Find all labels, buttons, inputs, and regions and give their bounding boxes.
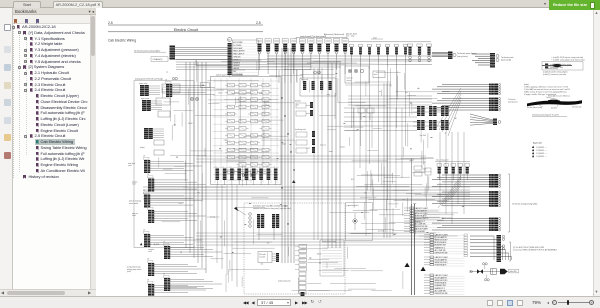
svg-text:horn: horn xyxy=(413,202,416,205)
svg-text:9: 9 xyxy=(314,72,315,74)
svg-text:(C/D) be: (C/D) be xyxy=(551,108,557,110)
svg-text:E-21: E-21 xyxy=(307,148,310,150)
fuse connector F3 xyxy=(367,45,371,47)
stepped bundle connector bar xyxy=(497,235,502,262)
svg-text:(swing frame side): (swing frame side) xyxy=(550,67,563,69)
svg-text:CN-12: CN-12 xyxy=(218,92,223,94)
junction box small xyxy=(201,83,210,88)
svg-text:(roof): (roof) xyxy=(127,271,131,273)
component cluster xyxy=(144,128,148,139)
component cluster wiper motor xyxy=(142,100,146,111)
unit box cigarette lighter xyxy=(346,203,373,241)
legend connector sample box xyxy=(542,62,583,71)
svg-text:(flasher): (flasher) xyxy=(295,100,301,102)
svg-text:CN: CN xyxy=(143,156,145,158)
svg-text:HORN SW: HORN SW xyxy=(233,57,241,59)
bracket row2 xyxy=(349,41,431,43)
svg-text:acc: acc xyxy=(379,91,382,93)
unit box swing panel xyxy=(134,81,194,248)
harness connector stack xyxy=(442,218,489,220)
wires dropping from switch row to bus xyxy=(259,56,261,70)
svg-text:(at) the (blank) wiring: (at) the (blank) wiring xyxy=(527,106,542,109)
svg-text:lamp sw: lamp sw xyxy=(320,145,326,147)
roof unit cluster xyxy=(296,132,307,137)
svg-text:WIPER MOTOR F: WIPER MOTOR F xyxy=(435,280,448,282)
wire mesh right-mid extra xyxy=(370,208,401,210)
harness connector stack xyxy=(442,98,489,100)
bus branch verticals right-center xyxy=(353,108,355,208)
svg-text:CN: CN xyxy=(143,230,145,232)
svg-text:2-5: 2-5 xyxy=(108,21,113,25)
svg-text:FLASHER UNIT: FLASHER UNIT xyxy=(435,244,447,247)
switch connector S10 xyxy=(333,39,339,44)
svg-text:CN-12: CN-12 xyxy=(178,203,183,205)
wire bus center-left xyxy=(185,62,187,248)
switch connector S8 xyxy=(316,39,322,44)
crossing junction circles xyxy=(190,97,193,100)
switch connector S9 xyxy=(325,39,331,44)
fuse connector F4 xyxy=(376,45,380,47)
small unit box right of relay box xyxy=(373,71,385,78)
svg-text:relay: relay xyxy=(327,93,331,96)
note full jib assembly xyxy=(510,242,512,261)
relay grid small relays xyxy=(228,84,235,87)
fuse connector F6 xyxy=(394,45,398,47)
svg-text:GN-05: GN-05 xyxy=(188,123,193,125)
cab device connector wiper sw xyxy=(148,210,151,223)
harness to electric parts lower top xyxy=(432,52,448,54)
svg-text:4) apply a handle. Pilot type*: 4) apply a handle. Pilot type* is mainta… xyxy=(524,93,557,96)
svg-text:(lamp unit): (lamp unit) xyxy=(301,78,309,81)
horizontal bus group upper-mid xyxy=(196,155,426,157)
cab device connector xyxy=(144,195,147,208)
triangle marker A xyxy=(405,263,410,267)
legend cable drawing small xyxy=(542,65,572,67)
fuse connector F7 xyxy=(403,45,407,47)
scattered wire ticks xyxy=(394,234,396,236)
svg-text:heater relay: heater relay xyxy=(139,82,148,85)
svg-text:WIPER MOTOR F: WIPER MOTOR F xyxy=(435,240,448,242)
lamp circles center xyxy=(243,173,247,177)
svg-text:12V: 12V xyxy=(197,193,200,195)
svg-text:(Front electric wiring): (Front electric wiring) xyxy=(322,240,337,243)
terminal list D xyxy=(430,274,434,276)
horizontal bus group mid xyxy=(143,186,470,188)
svg-text:(cab)(X): XX(S) electric wirin: (cab)(X): XX(S) electric wiring xyxy=(550,63,571,66)
svg-text:DEFROSTER SW: DEFROSTER SW xyxy=(435,293,448,295)
svg-text:CN: CN xyxy=(147,206,149,208)
svg-text:(switch panel (The front panel: (switch panel (The front panel)) xyxy=(300,35,327,38)
svg-text:HORN RELAY B: HORN RELAY B xyxy=(435,241,447,244)
svg-text:CN: CN xyxy=(143,190,145,192)
svg-text:wiper sw: wiper sw xyxy=(132,212,139,215)
bracket to electric wiring swing table xyxy=(509,174,511,232)
svg-text:(electric heating): (electric heating) xyxy=(129,199,141,202)
svg-text:fuse 10A: fuse 10A xyxy=(378,230,384,233)
fuse connector F5 xyxy=(385,45,389,47)
svg-text:To electric wiring (swing tabl: To electric wiring (swing table) xyxy=(512,202,538,205)
svg-text:To electric parts (lower): To electric parts (lower) xyxy=(457,52,477,55)
label CN-A05(X) xyxy=(151,57,168,62)
main harness cable drawing xyxy=(527,100,582,106)
cab device connector xyxy=(148,284,151,297)
svg-text:CIG LIGHTER: CIG LIGHTER xyxy=(415,231,426,233)
harness connector stack xyxy=(442,174,489,176)
junction circled label xyxy=(228,38,232,42)
chain terminal circles upper xyxy=(482,263,484,265)
svg-text:HEAD LAMP LH: HEAD LAMP LH xyxy=(233,53,244,56)
verticals from matrix to lists xyxy=(439,132,441,204)
svg-text:(swing panel (The left overhea: (swing panel (The left overhead)) xyxy=(135,77,163,80)
svg-text:(note): (note) xyxy=(524,83,529,86)
arrow marker into alarm box xyxy=(234,207,239,211)
svg-text:CN: CN xyxy=(165,80,167,82)
bracket switch panel front panel xyxy=(296,37,347,39)
svg-text:A/C COMP SW: A/C COMP SW xyxy=(415,222,426,225)
svg-text:(automatic alarm unit, AML uni: (automatic alarm unit, AML unit) (left d… xyxy=(253,204,288,207)
fuse row bracket xyxy=(435,161,470,163)
wire mesh upper band xyxy=(217,89,259,91)
switch connector S11 xyxy=(342,39,348,44)
connector CN-A05 block xyxy=(170,46,176,60)
fuse connector F2 xyxy=(358,45,362,47)
alarm unit terminal circles xyxy=(249,213,252,216)
terminal list B xyxy=(430,234,434,236)
svg-text:(room lp): (room lp) xyxy=(347,77,354,80)
svg-text:ACC POWER: ACC POWER xyxy=(233,41,243,44)
svg-text:motor: motor xyxy=(259,92,263,95)
svg-text:(door): (door) xyxy=(341,146,346,149)
svg-text:〈CQ6056〉—: 〈CQ6056〉— xyxy=(535,149,547,152)
harness connector stack xyxy=(442,191,489,193)
small relay boxes left of matrix xyxy=(358,108,365,113)
junction wire table xyxy=(232,40,258,76)
svg-text:unit: unit xyxy=(261,263,264,266)
svg-text:(relay): (relay) xyxy=(140,147,145,149)
cab device connector speaker xyxy=(148,179,151,192)
harness bundle top right large xyxy=(472,53,490,55)
radio lower column xyxy=(299,272,306,276)
svg-text:GN-05: GN-05 xyxy=(317,254,322,256)
relay connector K1 xyxy=(407,44,412,46)
svg-text:CAB SPOT LIGHT: CAB SPOT LIGHT xyxy=(435,233,448,236)
svg-text:(roof lamp unit): (roof lamp unit) xyxy=(295,128,306,131)
svg-text:To electric parts: To electric parts xyxy=(501,56,514,59)
svg-text:35: 35 xyxy=(228,40,230,42)
unit box switch panel relay grid xyxy=(211,77,282,185)
svg-text:(blind WL): (blind WL) xyxy=(510,271,518,273)
svg-text:horn: horn xyxy=(296,104,299,107)
svg-text:(lower) (cab): (lower) (cab) xyxy=(501,60,511,62)
terminal list A xyxy=(410,207,414,209)
blind connector chain wire xyxy=(470,271,508,273)
riser wires below relay grid xyxy=(216,185,218,263)
svg-text:speaker: speaker xyxy=(132,181,138,184)
svg-text:10: 10 xyxy=(318,72,320,74)
switch connector S3 xyxy=(274,39,280,44)
svg-text:computer: computer xyxy=(148,248,155,251)
relay grid internal wires xyxy=(213,80,279,82)
cab device connector xyxy=(144,234,147,247)
switch connector S5 xyxy=(291,39,297,44)
svg-text:CN: CN xyxy=(163,274,165,276)
terminal list right column xyxy=(464,234,467,236)
svg-text:〈CQ6056〉—: 〈CQ6056〉— xyxy=(535,155,547,158)
wire bus center xyxy=(281,48,283,263)
long feeder wires from junction to right xyxy=(267,55,432,57)
svg-text:fuse 10A: fuse 10A xyxy=(420,134,426,137)
svg-text:ROOM LAMP RY: ROOM LAMP RY xyxy=(435,236,448,239)
label CQ6056 marker xyxy=(140,243,142,245)
svg-text:CN-12: CN-12 xyxy=(224,140,229,142)
svg-text:(switch panel (The left overhe: (switch panel (The left overhead)) xyxy=(216,74,243,77)
triangle marker small mid xyxy=(292,180,296,183)
svg-text:Applicable: Applicable xyxy=(533,141,543,144)
switch connector S6 xyxy=(299,39,305,44)
component cluster heater relay xyxy=(140,85,144,96)
svg-text:〈CQ6056〉—: 〈CQ6056〉— xyxy=(535,146,547,149)
svg-text:(connection) VEHICLE WIRED FOR: (connection) VEHICLE WIRED FOR FULL A/P … xyxy=(513,249,558,252)
wire bus far right vertical xyxy=(411,204,413,295)
svg-text:GN-05: GN-05 xyxy=(265,105,270,107)
svg-text:relay bx: relay bx xyxy=(347,80,352,82)
svg-text:acc: acc xyxy=(166,71,169,73)
svg-text:〈CQ6056〉 (A) (DB): 〈CQ6056〉 (A) (DB) xyxy=(143,243,160,246)
alarm unit connector pair 1 xyxy=(257,214,260,228)
switch connector S1 xyxy=(256,39,262,44)
flasher unit cluster xyxy=(296,103,306,108)
svg-text:② (cab)(Y): wiring adapter (ca: ② (cab)(Y): wiring adapter (cab internal… xyxy=(551,58,585,61)
cab device connector xyxy=(148,263,151,276)
chain terminal circles lower xyxy=(484,279,486,281)
svg-text:ROOM LAMP RY: ROOM LAMP RY xyxy=(435,276,448,279)
radio component column xyxy=(299,245,307,249)
svg-text:CN: CN xyxy=(147,259,149,261)
unit box automatic alarm xyxy=(244,203,345,294)
svg-text:parts (lower): parts (lower) xyxy=(508,101,518,104)
svg-text:CAB SPOT LIGHT: CAB SPOT LIGHT xyxy=(435,256,448,259)
wire bus center junction dots xyxy=(281,97,282,98)
front wiring list block xyxy=(320,240,344,276)
svg-text:FLASHER UNIT: FLASHER UNIT xyxy=(415,217,427,220)
svg-text:CN: CN xyxy=(147,280,149,282)
chain inline connector xyxy=(491,269,497,274)
title rule top xyxy=(108,24,263,26)
horizontal bus upper right xyxy=(348,95,432,97)
grid box bottom connector row xyxy=(216,169,220,181)
terminal list C xyxy=(430,256,434,258)
wire down from CN-A05 xyxy=(195,60,197,66)
small component boxes left of fuse row xyxy=(414,166,422,170)
svg-text:timer: timer xyxy=(374,73,378,76)
swing panel small boxes lower xyxy=(154,140,164,145)
relay connector K2 xyxy=(417,44,422,46)
svg-text:DEFROSTER SW: DEFROSTER SW xyxy=(435,253,448,255)
switch connector S7 xyxy=(308,39,314,44)
svg-text:ILL POWER: ILL POWER xyxy=(233,45,242,47)
wire bus right-center xyxy=(327,63,329,248)
junction marks mid xyxy=(314,71,317,74)
svg-text:(CD-radio: (CD-radio xyxy=(259,253,266,256)
svg-text:CAB SPOT LIGHT: CAB SPOT LIGHT xyxy=(415,207,428,210)
svg-text:A/C COMP SW: A/C COMP SW xyxy=(435,289,446,292)
relay box with lamp circles xyxy=(345,66,369,83)
svg-text:WORK LAMP: WORK LAMP xyxy=(233,47,242,50)
svg-text:HEATER RY 2: HEATER RY 2 xyxy=(415,220,425,223)
connector matrix block xyxy=(417,106,420,116)
cab device connector computer xyxy=(164,246,167,259)
svg-text:2-5: 2-5 xyxy=(256,21,261,25)
component box below switch row xyxy=(300,78,336,96)
junction connector column CN-B01 xyxy=(228,43,232,75)
svg-text:A/C COMP SW: A/C COMP SW xyxy=(435,249,446,252)
bus x290 group xyxy=(383,83,385,238)
svg-text:(cigarette lighter): (cigarette lighter) xyxy=(347,204,359,207)
chain plug arrow xyxy=(500,269,508,274)
svg-text:CN: CN xyxy=(147,174,149,176)
svg-text:(swing): (swing) xyxy=(210,217,215,219)
svg-text:A(electrical) B(electrical): A(electrical) B(electrical) xyxy=(324,33,344,36)
svg-text:RADIO B POWER: RADIO B POWER xyxy=(415,228,429,231)
fuse row connectors xyxy=(437,164,442,167)
diagonal harness wires right xyxy=(436,88,461,128)
stepped harness bundle lower right xyxy=(470,235,494,237)
svg-text:fuse - relay panel: fuse - relay panel xyxy=(436,160,449,162)
title rule bottom xyxy=(108,31,263,33)
svg-text:CN-A05(X): CN-A05(X) xyxy=(153,58,163,61)
fuse connector F1 xyxy=(349,45,353,47)
svg-text:(early yellow lamp): (early yellow lamp) xyxy=(127,266,141,268)
svg-text:(cable)(Y) connector (cab side: (cable)(Y) connector (cab side) xyxy=(543,73,567,76)
horizontal bus lower xyxy=(196,232,436,234)
label blind WL xyxy=(509,269,519,273)
switch connector S4 xyxy=(282,39,288,44)
svg-text:wiper motor: wiper motor xyxy=(141,97,150,100)
wire mesh bottom xyxy=(301,248,329,250)
cab device connector xyxy=(164,278,167,291)
svg-text:wiper: wiper xyxy=(283,143,287,146)
alarm unit connector pair 2 xyxy=(272,214,275,228)
svg-text:Terminal side: Terminal side xyxy=(572,106,582,108)
svg-text:DEFROSTER SW: DEFROSTER SW xyxy=(415,226,428,228)
svg-text:FLASHER UNIT: FLASHER UNIT xyxy=(435,284,447,287)
svg-text:〈CQ6056〉—: 〈CQ6056〉— xyxy=(535,152,547,155)
fan bundle to single connector xyxy=(470,114,493,120)
svg-text:CN: CN xyxy=(163,242,165,244)
svg-text:(swing frame): (swing frame) xyxy=(457,56,468,58)
svg-text:HEATER RY 2: HEATER RY 2 xyxy=(435,287,445,290)
riser wires center tall xyxy=(313,68,315,240)
switch connector S2 xyxy=(265,39,271,44)
vertical drops from fuse row xyxy=(351,63,353,128)
feeder wires upper group xyxy=(176,59,311,61)
svg-text:DEF: DEF xyxy=(233,71,236,73)
wire grid left of lists xyxy=(352,160,388,162)
wire mesh center-right xyxy=(327,129,336,131)
svg-text:WIPER MOTOR F: WIPER MOTOR F xyxy=(435,262,448,264)
svg-text:Cab Electric Wiring: Cab Electric Wiring xyxy=(108,39,136,43)
svg-text:CAB SPOT LIGHT: CAB SPOT LIGHT xyxy=(435,274,448,277)
wires from CN-A05 to junction column xyxy=(175,47,228,49)
cab device connector room lamp xyxy=(144,160,147,173)
svg-text:HEAD LAMP RH: HEAD LAMP RH xyxy=(233,50,244,53)
chain left terminal xyxy=(471,271,473,273)
harness connector stack xyxy=(442,84,489,86)
svg-text:12V: 12V xyxy=(267,243,270,245)
connector matrix feed wires xyxy=(344,107,417,109)
svg-text:HORN RELAY B: HORN RELAY B xyxy=(415,215,427,218)
relay block in swing panel xyxy=(162,84,180,93)
svg-text:motor: motor xyxy=(329,150,333,153)
CD radio connector xyxy=(276,253,279,262)
CD radio unit box xyxy=(258,252,272,263)
svg-text:HEATER RY 2: HEATER RY 2 xyxy=(435,246,445,249)
cab device connector xyxy=(166,84,169,97)
wire mesh left-center xyxy=(195,115,227,117)
svg-text:WIPER LO: WIPER LO xyxy=(233,59,241,61)
svg-text:(radio wiring unit): (radio wiring unit) xyxy=(278,280,291,283)
svg-text:Electric Circuit: Electric Circuit xyxy=(174,28,199,32)
chain bowtie connector xyxy=(477,269,483,274)
svg-text:HORN RELAY B: HORN RELAY B xyxy=(435,264,447,267)
svg-text:E-21: E-21 xyxy=(351,179,354,181)
svg-text:HORN RELAY B: HORN RELAY B xyxy=(435,282,447,285)
svg-text:WIPER HI: WIPER HI xyxy=(233,62,240,64)
svg-text:fuse · relay: fuse · relay xyxy=(346,35,355,38)
svg-text:ROOM LAMP RY: ROOM LAMP RY xyxy=(435,258,448,261)
relay connector K3 xyxy=(426,44,431,46)
triangle marker B xyxy=(421,267,426,271)
